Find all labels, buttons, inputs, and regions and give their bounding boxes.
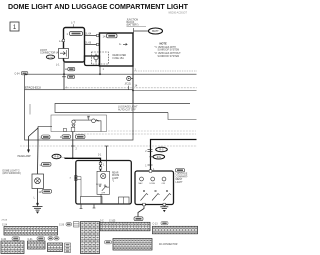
ground dome light	[33, 203, 43, 214]
junction dot on horizontal wire	[63, 73, 65, 75]
dedicated fuse dashed box	[92, 52, 109, 64]
connector pinout table Y	[153, 226, 198, 234]
connector icon below junction on wire W1	[62, 75, 75, 78]
room lamp switch contacts	[96, 184, 110, 195]
svg-text:4D-CONNECTOR: 4D-CONNECTOR	[159, 244, 178, 246]
wire step from timer box to page edge	[168, 113, 197, 120]
main battery wire from junction block down	[132, 66, 134, 104]
svg-text:HEADLAMP: HEADLAMP	[18, 155, 32, 158]
svg-text:ETACS-ECU: ETACS-ECU	[25, 86, 41, 90]
svg-text:DOME: DOME	[150, 183, 156, 185]
svg-text:J/C(2): J/C(2)	[125, 84, 131, 86]
svg-text:SUNROOF SYSTEM: SUNROOF SYSTEM	[158, 50, 180, 52]
svg-text:LIGHT: LIGHT	[176, 181, 184, 184]
dome light component box	[32, 174, 44, 189]
pin square on B1 feed wire	[99, 162, 105, 169]
room lamp bulb	[101, 173, 106, 178]
tick on luggage wire lower	[145, 165, 152, 168]
wire color oval left	[52, 154, 70, 158]
battery feed wire to oval	[134, 30, 149, 32]
connector pinout table X	[100, 222, 150, 231]
svg-text:AUTO-CUT OFF: AUTO-CUT OFF	[118, 108, 136, 111]
wire box A right to junction block pin 2	[85, 42, 100, 46]
relay coil box bottom of B1	[81, 197, 103, 205]
svg-text:(BATTERY): (BATTERY)	[127, 24, 139, 27]
two cell box next to small table	[65, 243, 71, 253]
output pin box on sub box bottom	[71, 127, 75, 131]
svg-text:C-30: C-30	[1, 239, 7, 241]
svg-text:DOOR: DOOR	[96, 184, 102, 186]
wire color oval upper right	[156, 147, 168, 151]
pin boxes on sub box bottom edge	[64, 128, 67, 131]
svg-text:2L-06: 2L-06	[85, 42, 92, 45]
svg-text:C-04: C-04	[15, 74, 21, 76]
stacked bar icon right of row1	[74, 222, 80, 228]
connector pinout table tall grid	[81, 222, 100, 254]
transistor circle	[92, 119, 99, 123]
luggage switch arms	[141, 190, 172, 200]
relay box A	[64, 28, 85, 63]
svg-text:L-1: L-1	[56, 64, 60, 67]
dotted bus line lower	[20, 145, 197, 147]
bold feed wire to room lamp	[65, 155, 103, 172]
svg-text:C-13: C-13	[153, 224, 159, 226]
5V label	[87, 116, 90, 120]
svg-text:LAMP: LAMP	[112, 177, 119, 180]
dome light bulb	[35, 178, 41, 184]
fuse link box between box A and junction block	[85, 56, 100, 66]
dotted internal bus line	[64, 87, 197, 89]
connector pinout table C-31	[28, 241, 46, 249]
svg-text:C-24: C-24	[2, 224, 8, 226]
branch wire right from ETACS edge	[132, 90, 196, 92]
connector icon left of main wire at ETACS bottom	[60, 135, 71, 139]
svg-text:SUNROOF SYSTEM: SUNROOF SYSTEM	[158, 56, 180, 58]
luggage switch connector icon right	[176, 169, 185, 172]
luggage light switch box B2	[135, 171, 174, 205]
wire below inner switch box	[100, 194, 102, 204]
timer function box	[55, 104, 190, 113]
tick crossing dotted bus	[71, 146, 78, 151]
junction dot and branch oval	[150, 155, 165, 159]
label and icon above table Y	[153, 222, 169, 226]
connector icon on wire	[65, 67, 75, 70]
ETACS-ECU box	[25, 90, 133, 140]
connector label C-04 far left	[15, 72, 28, 76]
connector pinout table C-24	[4, 227, 58, 236]
B2 bottom pin squares	[143, 203, 146, 206]
leader line from label to junction block	[133, 28, 135, 33]
svg-text:CONNECTOR (4): CONNECTOR (4)	[40, 52, 59, 55]
connector pinout table small C-33	[48, 243, 63, 252]
wire corner into ETACS left	[24, 74, 26, 90]
connector icon inside junction block	[103, 34, 118, 39]
small connector label and icon row1 mid	[59, 223, 72, 227]
B2 ground wire	[160, 206, 168, 212]
stub wire pin 2 into room lamp box	[105, 146, 109, 171]
luggage switch text block	[176, 173, 189, 184]
dome light wire down from ETACS	[38, 126, 52, 128]
svg-text:R-G: R-G	[157, 157, 161, 159]
headlamp branch wire with arrow	[27, 128, 38, 153]
connector label icon above bottom table right	[134, 217, 143, 221]
svg-text:NOTE: NOTE	[160, 42, 167, 46]
bullseye connector on wire	[127, 76, 133, 80]
svg-text:A-: A-	[119, 43, 122, 46]
room lamp box B1	[76, 161, 132, 205]
junction block box	[100, 33, 134, 66]
junction block label text	[127, 20, 147, 27]
connector icon right of main wire at ETACS bottom	[76, 135, 86, 139]
connector pinout table C-30	[1, 241, 24, 254]
svg-text:L-T: L-T	[71, 22, 75, 25]
connector pinout table Z	[113, 239, 152, 251]
svg-text:C-31: C-31	[28, 239, 34, 241]
row2 label C-30	[1, 237, 20, 241]
dome light label	[3, 170, 21, 175]
connector icon below dome light	[39, 190, 52, 194]
svg-text:FUSE 15A: FUSE 15A	[113, 57, 125, 60]
pin cells bottom right of B1	[119, 197, 130, 204]
wire below dome light	[37, 189, 39, 204]
photo diode symbol	[72, 120, 75, 131]
svg-text:BATT: BATT	[152, 29, 159, 33]
solid branch wire to page edge	[25, 73, 197, 75]
dedicated fuse text	[113, 54, 127, 60]
internal circuit sub box	[51, 115, 107, 132]
svg-text:W5D30-AC001OT: W5D30-AC001OT	[168, 12, 187, 15]
main feed wire from ETACS bottom	[72, 132, 74, 159]
svg-text:C-26: C-26	[59, 225, 65, 227]
NOTE text block	[155, 42, 182, 58]
svg-text:2T-05: 2T-05	[2, 220, 8, 222]
battery oval	[149, 28, 163, 34]
svg-text:L-04: L-04	[48, 57, 53, 59]
dashed branch wire upper right	[135, 70, 197, 72]
page number box 1	[10, 22, 19, 31]
fused output wire from junction block bottom	[99, 66, 104, 75]
room lamp text block	[112, 172, 119, 183]
small icon pair above table C	[48, 237, 59, 240]
B2 output wire down left	[138, 206, 144, 217]
label A- with arrow inside junction block	[119, 43, 127, 46]
svg-text:R-B: R-B	[55, 157, 59, 159]
room lamp inner switch box	[97, 171, 110, 194]
timer box text	[118, 106, 138, 112]
dotted bus line mid upper	[108, 130, 197, 132]
luggage feed wire from page edge	[151, 140, 197, 172]
pin square upper left edge of box A	[62, 39, 64, 41]
row2 label C-31	[28, 237, 45, 241]
connector icon on dome wire	[40, 163, 52, 167]
fuse circle symbol	[94, 54, 98, 63]
tick at right end of dotted bus	[128, 86, 130, 90]
pin stub below B1 bottom mid	[93, 204, 96, 208]
wire from transistor to output pin	[95, 121, 101, 132]
small box with arrow on left edge of box A	[59, 49, 69, 59]
oval code below joint connector text	[46, 55, 54, 59]
svg-text:(W/O SUNROOF): (W/O SUNROOF)	[3, 173, 21, 175]
pin squares on B1 left edge	[70, 176, 82, 197]
svg-text:2L-04: 2L-04	[85, 33, 92, 36]
internal partition line left	[29, 104, 31, 115]
pin stub below B1 bottom left	[80, 204, 83, 209]
connector icon left of table Z	[105, 241, 112, 244]
svg-text:DOME LIGHT AND LUGGAGE COMPART: DOME LIGHT AND LUGGAGE COMPARTMENT LIGHT	[8, 2, 189, 11]
luggage switch contacts row	[139, 177, 166, 185]
wire from box A bottom down to ETACS	[63, 60, 65, 90]
pin square top B2	[149, 168, 155, 172]
svg-text:REAR: REAR	[112, 172, 119, 175]
dotted bus line mid	[75, 133, 197, 135]
svg-text:R-G: R-G	[159, 150, 163, 152]
connector icon on dome wire at ETACS bottom	[40, 135, 51, 139]
internal wire to transistor	[74, 119, 93, 121]
connector icon inside relay box A	[67, 32, 83, 37]
wire box A right to junction block pin 1	[85, 33, 100, 37]
inline connector ticks on luggage wire	[145, 150, 152, 153]
